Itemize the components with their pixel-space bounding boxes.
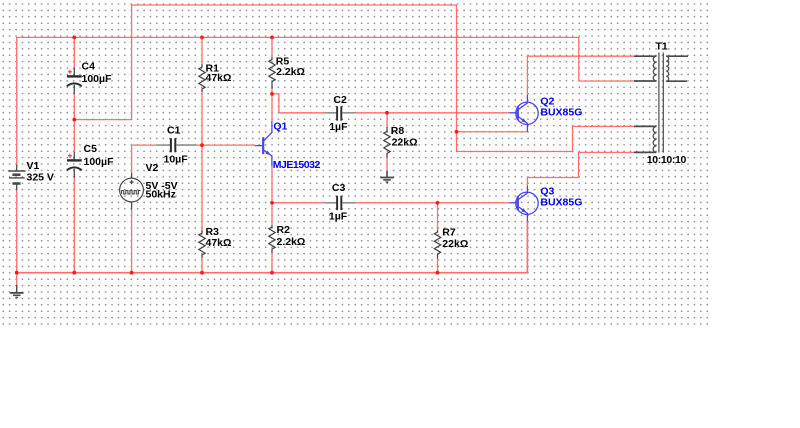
resistor R2 <box>269 225 275 253</box>
svg-text:2.2kΩ: 2.2kΩ <box>276 66 305 78</box>
junction bottom rail at V1/ground <box>15 271 19 275</box>
junction rail A at C4 <box>72 36 76 40</box>
svg-text:BUX85G: BUX85G <box>540 106 582 118</box>
svg-text:V1: V1 <box>27 160 40 172</box>
ground at R8 <box>380 171 394 182</box>
svg-text:R7: R7 <box>442 226 456 238</box>
junction C4/C5 midpoint <box>72 118 76 122</box>
battery V1 <box>8 165 25 191</box>
svg-text:V2: V2 <box>146 162 159 174</box>
svg-text:BUX85G: BUX85G <box>540 196 582 208</box>
svg-text:47kΩ: 47kΩ <box>206 72 232 84</box>
junction C2/R8/Q2 base <box>385 111 389 115</box>
resistor R1 <box>199 64 205 92</box>
wire: ground stub below rail at V1 <box>16 273 18 286</box>
wire: collector node down to Q1 collector <box>271 94 273 121</box>
junction C3/R7/Q3 base <box>436 201 440 205</box>
wire: R5 top from rail <box>271 37 273 57</box>
svg-text:1µF: 1µF <box>329 121 348 133</box>
wire: base node down to R3 top <box>201 145 203 230</box>
wire: V2 top riser to C1 row <box>132 145 158 173</box>
svg-text:C1: C1 <box>167 125 181 137</box>
junction Q1 emitter/C3/R2 <box>270 201 274 205</box>
transistor Q1 <box>255 121 272 166</box>
wire: net A top rail y=37 from V1 top corner to x=578 <box>17 37 635 164</box>
svg-text:1µF: 1µF <box>329 210 348 222</box>
wire: C5 bottom to bottom rail <box>73 178 75 273</box>
wire: Q2 collector to transformer top coil top lead <box>527 56 634 95</box>
transistor Q2 <box>510 95 539 132</box>
svg-text:C5: C5 <box>84 143 98 155</box>
wire: R8 top from C2 node <box>386 113 388 127</box>
wire: R2 top from C3 node <box>271 203 273 225</box>
wire: Q1 emitter down to C3 node <box>271 166 273 203</box>
resistor R3 <box>199 230 205 258</box>
junction bottom rail at R7 <box>436 271 440 275</box>
wire: C4 top stub from rail <box>73 37 75 68</box>
wire: C1 right to base node to Q1 base <box>197 144 255 146</box>
wire: R5 bottom to collector node <box>271 89 273 94</box>
wire: R2 bottom to bottom rail <box>271 253 273 273</box>
grid dot background <box>0 0 708 325</box>
svg-text:C2: C2 <box>333 94 347 106</box>
junction bottom rail at C5 <box>72 271 76 275</box>
wire: Q2 emitter to net B junction <box>457 131 528 133</box>
source V2 <box>120 173 144 210</box>
capacitor C2 <box>325 106 355 120</box>
wire: R7 bottom to bottom rail <box>437 259 439 273</box>
resistor R7 <box>434 230 440 259</box>
wire: Q3 collector riser to transformer bottom coil bottom lead <box>527 152 634 186</box>
junction rail A at R1 <box>200 36 204 40</box>
wire: R3 bottom to bottom rail <box>201 258 203 273</box>
svg-text:100µF: 100µF <box>84 156 115 168</box>
wire: net B mid junction to top rail riser <box>74 5 634 152</box>
capacitor C3 <box>325 196 355 210</box>
svg-text:100µF: 100µF <box>82 73 113 85</box>
wire: R1 top from rail <box>201 37 203 64</box>
svg-text:22kΩ: 22kΩ <box>392 136 418 148</box>
wire: C5 top lead <box>73 120 75 152</box>
junction bottom rail at R2 <box>270 271 274 275</box>
wire: V2 bottom to bottom rail <box>131 209 133 272</box>
capacitor C1 <box>158 138 197 152</box>
svg-text:Q1: Q1 <box>273 120 287 132</box>
resistor R8 <box>384 127 390 158</box>
junction bottom rail at R3 <box>200 271 204 275</box>
svg-text:2.2kΩ: 2.2kΩ <box>277 236 306 248</box>
wire: bottom rail y=272 to Q3 emitter <box>17 222 528 273</box>
wire: net B C4 bottom to mid junction <box>73 94 75 120</box>
svg-text:10µF: 10µF <box>164 154 189 166</box>
junction R5/Q1 collector/C2 <box>270 92 274 96</box>
capacitor C4 <box>67 68 82 94</box>
transistor Q3 <box>510 186 539 222</box>
svg-text:T1: T1 <box>656 41 668 53</box>
svg-text:R8: R8 <box>391 125 405 137</box>
svg-text:47kΩ: 47kΩ <box>206 237 232 249</box>
svg-text:325 V: 325 V <box>27 171 54 183</box>
svg-text:50kHz: 50kHz <box>146 189 176 201</box>
wire: collector node jog to C2 left <box>272 94 326 113</box>
svg-text:22kΩ: 22kΩ <box>442 238 468 250</box>
resistor R5 <box>269 57 275 89</box>
ground at V1 <box>10 285 24 298</box>
svg-text:10:10:10: 10:10:10 <box>647 154 687 166</box>
wire: R7 top from node <box>437 203 439 230</box>
svg-text:R2: R2 <box>277 224 291 236</box>
svg-text:C3: C3 <box>332 182 346 194</box>
wire: C3 node to C3 left lead <box>272 202 327 204</box>
junction Q2 emitter net B <box>455 130 459 134</box>
capacitor C5 <box>67 152 82 178</box>
transformer T1 <box>634 53 688 153</box>
junction bottom rail at V2 <box>130 271 134 275</box>
svg-text:MJE15032: MJE15032 <box>273 159 321 171</box>
svg-text:C4: C4 <box>82 61 96 73</box>
junction rail A at R5 <box>270 36 274 40</box>
wire: V1 bottom to bottom rail <box>16 190 18 272</box>
wire: C2 right to R8 node to Q2 base <box>355 112 510 114</box>
junction base node C1/R1/R3 <box>200 143 204 147</box>
wire: R8 bottom to ground <box>386 158 388 172</box>
wire: R1 bottom to base node <box>201 92 203 145</box>
wire: C3 right to R7 node to Q3 base <box>355 202 510 204</box>
